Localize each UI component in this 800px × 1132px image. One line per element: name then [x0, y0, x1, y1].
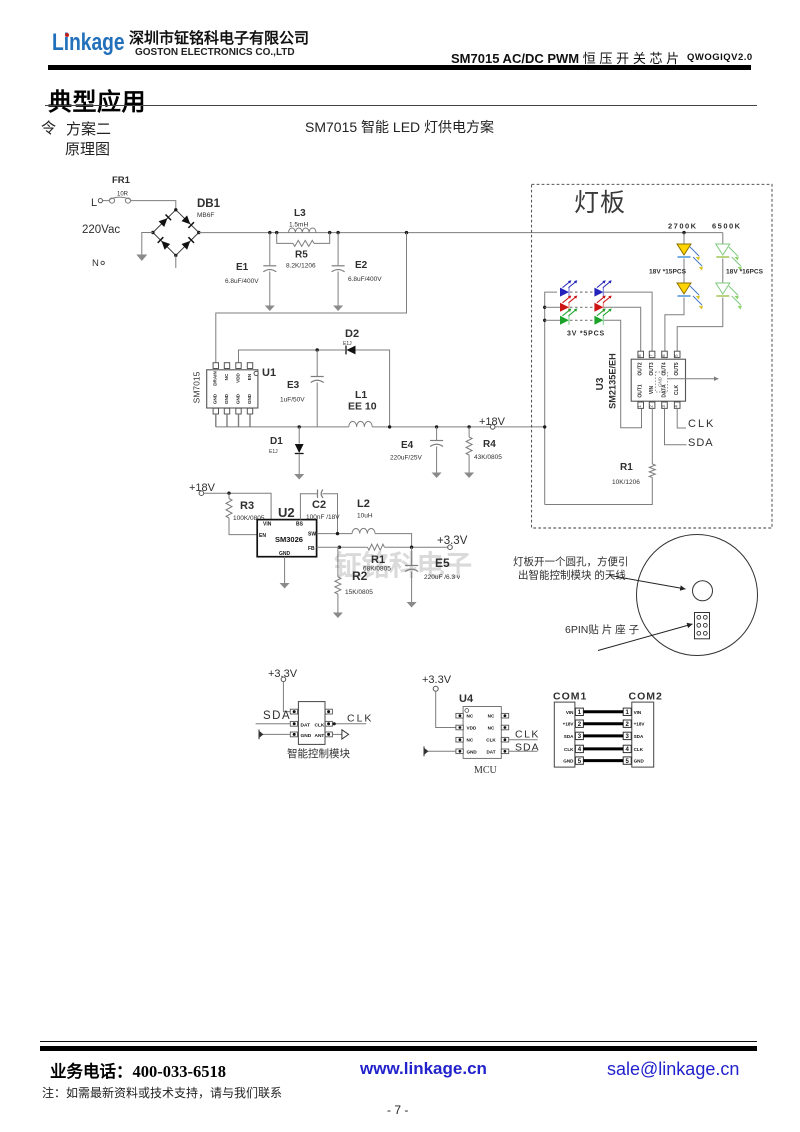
- inductor L1 EE10: [349, 421, 372, 427]
- LED yellow chain 18V*15PCS: [683, 233, 685, 244]
- svg-text:NC: NC: [488, 726, 495, 731]
- header right title: [451, 48, 683, 67]
- svg-text:CLK: CLK: [347, 713, 373, 725]
- svg-text:R4: R4: [483, 439, 496, 450]
- svg-text:VIN: VIN: [649, 385, 655, 394]
- diode D1 E1J: [298, 427, 300, 444]
- resistor R4 43K/0805: [468, 427, 470, 437]
- inductor L3 1.5mH: [289, 228, 317, 233]
- IC U1 SM7015: [207, 370, 258, 408]
- svg-text:OUT1: OUT1: [638, 384, 644, 398]
- svg-text:220uF /6.3 v: 220uF /6.3 v: [424, 574, 461, 581]
- ground arrow left (module GND): [263, 733, 290, 735]
- svg-text:U3: U3: [595, 377, 606, 390]
- svg-text:1.5mH: 1.5mH: [289, 222, 308, 229]
- wire bridge left vertex to N arrow: [142, 233, 153, 255]
- LED green pair: [545, 319, 560, 321]
- svg-text:L: L: [91, 197, 97, 209]
- LED red pair: [545, 306, 560, 308]
- svg-text:VIN: VIN: [263, 522, 272, 528]
- svg-text:SDA: SDA: [564, 734, 574, 739]
- svg-text:100nF /18V: 100nF /18V: [306, 514, 340, 521]
- diode D2 E1J: [239, 350, 346, 362]
- svg-text:OUT2: OUT2: [638, 362, 644, 376]
- wire +3.3V to module pin1: [283, 682, 290, 712]
- svg-text:VDD: VDD: [235, 372, 240, 382]
- svg-text:COM1: COM1: [553, 691, 587, 703]
- svg-text:+3.3V: +3.3V: [422, 674, 452, 686]
- svg-text:SM3026: SM3026: [275, 535, 303, 544]
- svg-text:E3: E3: [287, 380, 300, 391]
- svg-text:CLK: CLK: [688, 418, 715, 430]
- wire drain branch (rail to U1 pin1): [216, 233, 407, 363]
- svg-text:NC: NC: [467, 714, 474, 719]
- wire bridge bottom stub: [175, 255, 177, 268]
- svg-text:E1: E1: [236, 262, 249, 273]
- ground arrow left (MCU GND): [428, 750, 456, 752]
- wire U3 CLK out: [677, 408, 686, 428]
- svg-text:220Vac: 220Vac: [82, 224, 120, 236]
- lamp board dashed box 灯板: [532, 184, 772, 528]
- capacitor E3 1uF/50V: [316, 350, 318, 376]
- svg-text:U2: U2: [278, 505, 295, 520]
- svg-text:CLK: CLK: [634, 747, 644, 752]
- svg-text:GND: GND: [563, 759, 574, 764]
- svg-text:10K/1206: 10K/1206: [612, 479, 640, 486]
- svg-text:R2: R2: [352, 569, 368, 583]
- capacitor E5 220uF/6.3V: [411, 547, 413, 565]
- svg-text:MB6F: MB6F: [197, 212, 214, 219]
- svg-text:OUT4: OUT4: [661, 362, 667, 376]
- svg-text:GND: GND: [247, 393, 252, 404]
- wire U1 gnd pins to rail: [215, 414, 217, 427]
- svg-text:DAT: DAT: [301, 722, 311, 728]
- svg-text:DAT: DAT: [486, 749, 495, 754]
- resistor R1 10K/1206: [651, 408, 653, 464]
- svg-text:E2: E2: [355, 260, 368, 271]
- svg-text:CLK: CLK: [486, 738, 496, 743]
- svg-text:6.8uF/400V: 6.8uF/400V: [348, 276, 382, 283]
- IC U2 SM3026: [257, 520, 316, 557]
- svg-text:10R: 10R: [117, 191, 129, 197]
- node +3.3V terminal: [448, 545, 453, 550]
- svg-text:8.2K/1206: 8.2K/1206: [286, 263, 316, 270]
- svg-text:EE 10: EE 10: [348, 401, 377, 413]
- svg-text:R1: R1: [620, 462, 633, 473]
- svg-text:U4: U4: [459, 693, 474, 705]
- svg-text:FR1: FR1: [112, 175, 131, 186]
- U3 output arrow: [668, 378, 719, 380]
- svg-text:SW: SW: [308, 532, 316, 538]
- svg-text:43K/0805: 43K/0805: [474, 454, 502, 461]
- svg-text:3V *5PCS: 3V *5PCS: [567, 331, 605, 338]
- svg-text:R1: R1: [371, 554, 385, 566]
- resistor R2 15K/0805: [338, 547, 340, 577]
- svg-text:+18V: +18V: [563, 722, 575, 727]
- svg-text:15K/0805: 15K/0805: [345, 589, 373, 596]
- svg-text:D1: D1: [270, 436, 283, 447]
- svg-text:灯板开一个圆孔，方便引: 灯板开一个圆孔，方便引: [513, 555, 629, 568]
- 6PIN pad: [695, 613, 710, 639]
- svg-text:SDA: SDA: [515, 742, 540, 754]
- svg-text:EN: EN: [259, 533, 266, 539]
- lamp plate circle: [637, 535, 758, 656]
- COM pin row 4 CLK: [575, 745, 583, 752]
- svg-text:ANT: ANT: [315, 733, 325, 739]
- svg-text:10uH: 10uH: [357, 513, 373, 520]
- svg-text:灯板: 灯板: [574, 189, 626, 217]
- svg-text:N: N: [92, 258, 99, 269]
- svg-text:MCU: MCU: [474, 765, 498, 776]
- module 智能控制模块: [298, 702, 325, 745]
- svg-text:VIN: VIN: [634, 710, 642, 715]
- wire +3.3V to VDD: [436, 691, 456, 727]
- svg-text:COM2: COM2: [629, 691, 663, 703]
- antenna hole circle: [693, 581, 713, 601]
- svg-text:GND: GND: [235, 393, 240, 404]
- wire fuse to bridge top: [131, 201, 176, 210]
- svg-text:VDD: VDD: [467, 726, 477, 731]
- svg-text:GND: GND: [301, 733, 312, 739]
- capacitor E1 6.8uF/400V: [269, 233, 271, 266]
- wire MCU SDA: [509, 750, 538, 752]
- wire MCU CLK: [509, 739, 538, 741]
- svg-text:6PIN贴 片 座 子: 6PIN贴 片 座 子: [565, 623, 639, 636]
- svg-text:2700K: 2700K: [668, 222, 698, 231]
- wire +18V to VIN: [204, 493, 271, 519]
- capacitor C2 100nF/18V: [300, 494, 317, 520]
- svg-text:R5: R5: [295, 250, 308, 261]
- COM pin row 2 +18V: [575, 720, 583, 727]
- IC U3 SM2135E/EH: [631, 359, 685, 401]
- svg-text:18V *16PCS: 18V *16PCS: [726, 269, 764, 276]
- COM pin row 3 SDA: [575, 732, 583, 739]
- svg-text:U1: U1: [262, 367, 276, 379]
- svg-text:R3: R3: [240, 500, 254, 512]
- wire blue row to U3 pin7: [604, 292, 652, 351]
- wire red row to U3 pin8: [604, 307, 641, 351]
- antenna triangle (module ANT): [332, 733, 342, 735]
- svg-text:L3: L3: [294, 208, 306, 219]
- resistor R5 8.2K/1206 (parallel loop): [277, 233, 293, 244]
- wire SW line: [317, 533, 353, 535]
- svg-text:SDA: SDA: [634, 734, 644, 739]
- LED blue pair (3V*5PCS row1): [560, 288, 569, 297]
- svg-text:SDA: SDA: [688, 437, 714, 449]
- svg-text:SDA: SDA: [263, 710, 291, 722]
- svg-text:6.8uF/400V: 6.8uF/400V: [225, 278, 259, 285]
- svg-text:E1J: E1J: [343, 341, 352, 347]
- svg-text:220uF/25V: 220uF/25V: [390, 455, 422, 462]
- svg-text:GND: GND: [467, 749, 478, 754]
- svg-text:L2: L2: [357, 498, 370, 510]
- resistor R3 100K/0805: [228, 493, 230, 498]
- svg-text:CLK: CLK: [564, 747, 574, 752]
- svg-text:E5: E5: [435, 556, 450, 570]
- svg-text:+18V: +18V: [634, 722, 646, 727]
- svg-text:NC: NC: [488, 714, 495, 719]
- svg-text:18V *15PCS: 18V *15PCS: [649, 269, 687, 276]
- logo Linkage: [52, 29, 125, 57]
- wire U3 SDA out: [665, 408, 687, 445]
- COM pin row 5 GND: [575, 757, 583, 764]
- svg-text:C2: C2: [312, 499, 326, 511]
- svg-text:FB: FB: [308, 546, 315, 552]
- arrow to 6PIN pad: [598, 624, 693, 651]
- section title: [48, 82, 146, 117]
- svg-text:+3.3V: +3.3V: [437, 535, 468, 547]
- capacitor E4 220uF/25V: [436, 427, 438, 440]
- svg-text:D2: D2: [345, 328, 359, 340]
- wire SDA to DAT: [256, 723, 291, 725]
- svg-text:智能控制模块: 智能控制模块: [287, 747, 350, 760]
- svg-text:GND: GND: [213, 393, 218, 404]
- svg-text:GND: GND: [279, 551, 291, 557]
- svg-text:CLK: CLK: [315, 722, 325, 728]
- wire CLK from module: [332, 723, 366, 725]
- svg-text:GND: GND: [634, 759, 645, 764]
- bridge rectifier DB1 MB6F: [153, 210, 199, 256]
- capacitor E2 6.8uF/400V: [337, 233, 339, 266]
- svg-text:BS: BS: [296, 522, 304, 528]
- wire green row to U3 pin1 loop: [604, 320, 642, 428]
- wire main top rail: [199, 232, 723, 234]
- svg-text:E1J: E1J: [269, 449, 278, 455]
- svg-text:L1: L1: [355, 389, 367, 401]
- svg-text:GND: GND: [224, 393, 229, 404]
- svg-text:SM7015: SM7015: [192, 371, 202, 403]
- svg-text:VIN: VIN: [566, 710, 574, 715]
- LED green chain 18V*16PCS: [722, 233, 724, 244]
- arrow to hole: [610, 576, 686, 590]
- svg-text:EN: EN: [247, 373, 252, 380]
- COM pin row 1 VIN: [575, 708, 583, 715]
- svg-text:出智能控制模块 的天线: 出智能控制模块 的天线: [518, 569, 626, 582]
- svg-text:E4: E4: [401, 440, 414, 451]
- svg-text:DRAIN: DRAIN: [213, 371, 218, 386]
- wire FB line: [317, 546, 368, 548]
- wire U2 GND to ground: [284, 557, 286, 583]
- svg-text:OUT5: OUT5: [674, 362, 680, 376]
- wire lamp left vertical: [545, 292, 557, 504]
- svg-text:DB1: DB1: [197, 198, 221, 210]
- inductor L2 10uH: [352, 528, 375, 533]
- svg-text:SM2135E/EH: SM2135E/EH: [608, 353, 618, 409]
- footer rule: [40, 1041, 757, 1042]
- svg-text:GND: GND: [658, 377, 663, 387]
- svg-text:1uF/50V: 1uF/50V: [280, 397, 305, 404]
- fuse FR1 10R: [103, 200, 110, 202]
- svg-text:OUT3: OUT3: [649, 362, 655, 376]
- svg-text:CLK: CLK: [674, 384, 680, 395]
- svg-text:6500K: 6500K: [712, 222, 742, 231]
- header bar: [48, 65, 751, 70]
- svg-text:NC: NC: [224, 373, 229, 380]
- svg-text:CLK: CLK: [515, 729, 540, 741]
- svg-text:NC: NC: [467, 738, 474, 743]
- wire secondary rail +18V: [216, 426, 349, 428]
- resistor R1 68K/0805: [368, 544, 385, 550]
